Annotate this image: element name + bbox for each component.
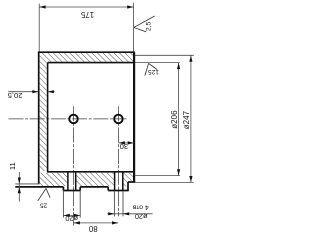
part outline: left pad bottom <box>63 190 80 192</box>
leader 125: left leg <box>145 63 149 75</box>
svg-text:80: 80 <box>88 224 97 233</box>
dimension 11: top arrow (pointing down) <box>18 178 21 184</box>
dimension o20 left: right extension line <box>79 191 81 218</box>
part outline: flange bottom between pads <box>80 186 108 188</box>
dimension o20 right: left arrow (pointing right) <box>108 212 114 215</box>
dimension 175: right arrow <box>127 5 133 8</box>
hatch: bottom flange section <box>40 173 134 186</box>
dimension o20 right: dimension line <box>107 213 152 215</box>
dimension o206: bottom extension line <box>135 175 180 177</box>
dimension 80: dimension line <box>74 222 119 224</box>
hole A: left side-wall hole circle <box>69 115 78 124</box>
part outline: top outer edge <box>38 51 135 53</box>
dimension 30: left arrow <box>119 141 125 144</box>
dimension 175: dimension line <box>39 6 133 8</box>
dimension o20 left: right arrow <box>74 214 80 217</box>
extension line: inner top edge extended right (for o206 top arrow and 125 leader) <box>135 62 180 64</box>
dimension o206: bottom arrow <box>177 169 180 175</box>
svg-text:ø206: ø206 <box>170 110 179 129</box>
part outline: right pad bottom <box>108 190 129 192</box>
part outline: flange bottom left portion <box>15 186 63 188</box>
leader 25: leader line <box>38 188 46 201</box>
part outline: left pad left edge <box>62 187 64 191</box>
svg-text:125: 125 <box>148 68 159 75</box>
dimension 30: right arrow <box>128 141 134 144</box>
dimension 20,5: dimension line right part <box>48 91 55 93</box>
leader 2,5: lower arrow leg <box>134 28 146 32</box>
dimension 20,5: right arrow (pointing left at inner wall) <box>48 90 54 93</box>
dimension 11: bottom arrow (pointing up) <box>18 187 21 193</box>
dimension 80: left arrow <box>74 221 80 224</box>
part outline: cup floor / flange top <box>47 171 134 173</box>
part outline: right flange hole edges <box>115 172 123 190</box>
dimension o20 left: left extension line <box>62 191 64 218</box>
dimension o247: top arrow <box>189 56 192 62</box>
dimension o206: top arrow <box>177 63 180 69</box>
extension line: step edge extended right (for o247 bottom arrow) <box>135 181 194 183</box>
dimension o247: top extension line <box>135 54 194 56</box>
dimension 20,5: left arrow (pointing right at outer wall) <box>32 90 38 93</box>
leader 25: right leg <box>46 188 50 197</box>
dimension 20,5: dimension line left part <box>8 91 38 93</box>
svg-text:20,5: 20,5 <box>8 91 23 100</box>
leader 125: right leg <box>149 63 158 69</box>
hole clearance white: right flange hole <box>115 172 122 186</box>
dimension 175: left extension line <box>38 4 40 52</box>
dimension o20 left: dimension line <box>63 214 80 216</box>
part outline: top inner edge <box>48 62 135 64</box>
wire: vertical centerline right hole axis <box>117 106 119 216</box>
dimension 11: dimension line <box>18 172 20 202</box>
dimension o20 right: left extension line <box>113 191 115 217</box>
svg-text:175: 175 <box>80 10 94 19</box>
hole clearance white: left flange hole <box>68 172 75 186</box>
dimension 80: right arrow <box>112 221 118 224</box>
svg-text:ø20: ø20 <box>135 212 148 221</box>
part outline: left pad right edge <box>79 187 81 191</box>
svg-text:ø20: ø20 <box>65 214 78 223</box>
svg-text:ø247: ø247 <box>182 110 191 129</box>
svg-text:2,5: 2,5 <box>145 21 152 31</box>
svg-text:25: 25 <box>40 201 48 208</box>
dimension o20 left: left arrow <box>64 214 70 217</box>
dimension o247: bottom arrow <box>189 176 192 182</box>
svg-text:11: 11 <box>8 162 17 170</box>
hatch: top flange band section <box>40 53 134 62</box>
dimension 175: right extension line <box>133 3 135 52</box>
part outline: right flange step <box>128 181 135 183</box>
part outline: right pad right edge <box>127 182 129 191</box>
leader 2,5: leader line <box>134 16 155 28</box>
dimension 30: dimension line <box>119 142 135 144</box>
part outline: left flange hole edges <box>68 172 76 190</box>
hole B: right side-wall hole circle <box>114 115 123 124</box>
svg-text:4 отв: 4 отв <box>132 203 148 210</box>
part outline: left wall outer edge <box>38 52 40 184</box>
part outline: right wall outer edge <box>133 52 135 182</box>
svg-text:30: 30 <box>120 142 128 151</box>
dimension o247: dimension line <box>190 55 192 182</box>
part outline: flange rim step line left <box>15 183 39 185</box>
dimension o206: dimension line <box>178 63 180 176</box>
wire: vertical centerline left hole axis <box>73 106 75 225</box>
dimension 175: left arrow <box>39 5 45 8</box>
dimension o20 right: right extension line <box>122 191 124 217</box>
dimension o20 right: right arrow (pointing left) <box>123 212 129 215</box>
part outline: right pad left edge <box>107 187 109 191</box>
wire: horizontal centerline through side holes <box>9 118 127 120</box>
part outline: left wall inner edge <box>47 63 49 172</box>
hatch: left wall section <box>40 62 47 171</box>
